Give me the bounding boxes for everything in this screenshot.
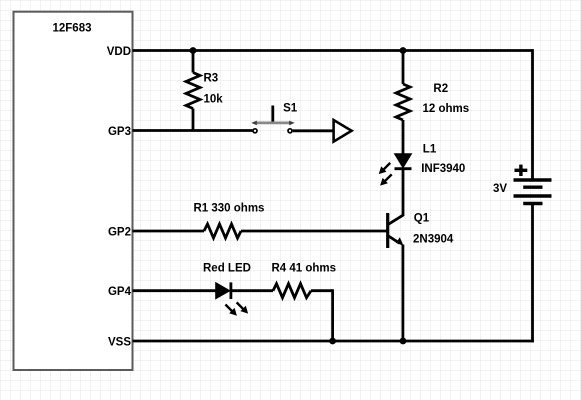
resistor R2 12 ohms: [396, 51, 469, 155]
svg-text:10k: 10k: [204, 94, 224, 106]
wire Red LED to R4: [231, 289, 273, 292]
wire R4 to corner: [311, 289, 333, 292]
resistor R4 41 ohms: [272, 263, 337, 298]
resistor R1 330 ohms: [194, 203, 265, 239]
svg-text:R2: R2: [433, 83, 448, 95]
svg-text:GP4: GP4: [108, 286, 132, 298]
svg-text:3V: 3V: [493, 183, 507, 195]
svg-text:S1: S1: [283, 102, 298, 114]
wire right drop to battery positive: [531, 49, 534, 180]
wire GP2 to R1: [133, 230, 205, 233]
svg-text:L1: L1: [423, 144, 437, 156]
wire GP3 to switch: [133, 129, 253, 132]
wire VSS rail: [133, 340, 534, 343]
pin label VSS: [108, 337, 131, 349]
junction node VDD-R2: [400, 47, 407, 54]
buffer arrow symbol: [334, 120, 352, 142]
wire LED to Q1 collector: [402, 169, 405, 216]
junction node VDD-R3: [190, 47, 197, 54]
resistor R3 10k: [186, 51, 223, 131]
wire battery negative down to VSS corner: [531, 204, 534, 343]
junction node VSS-R4: [329, 338, 336, 345]
svg-text:VDD: VDD: [107, 46, 131, 58]
svg-text:INF3940: INF3940: [421, 163, 465, 175]
wire GP4 to Red LED: [133, 289, 217, 292]
svg-text:VSS: VSS: [108, 337, 131, 349]
LED D1 Red LED: [203, 263, 251, 316]
svg-text:Red LED: Red LED: [203, 263, 251, 275]
svg-text:GP3: GP3: [108, 126, 131, 138]
pin label VDD: [107, 46, 131, 58]
transistor Q1 2N3904: [388, 212, 454, 248]
battery B1 3V: [493, 165, 552, 204]
pin label GP4: [108, 286, 132, 298]
wire corner down to VSS: [331, 289, 334, 341]
wire VDD rail: [133, 49, 533, 52]
svg-text:GP2: GP2: [108, 227, 131, 239]
junction node VSS-Q1 emitter: [400, 338, 407, 345]
pin label GP2: [108, 227, 131, 239]
svg-text:Q1: Q1: [414, 212, 430, 224]
wire switch to arrow: [293, 129, 334, 132]
pin label GP3: [108, 126, 131, 138]
wire Q1 emitter to VSS: [401, 245, 404, 342]
LED L1 INF3940: [379, 144, 466, 186]
svg-text:R3: R3: [204, 73, 219, 85]
IC U1 12F683 body: [14, 12, 133, 370]
svg-text:2N3904: 2N3904: [413, 234, 454, 246]
wire R1 to Q1 base: [241, 230, 388, 233]
svg-text:R1 330 ohms: R1 330 ohms: [194, 203, 265, 215]
svg-text:12F683: 12F683: [52, 23, 91, 35]
svg-text:12 ohms: 12 ohms: [423, 103, 470, 115]
switch S1: [251, 102, 297, 133]
svg-text:R4 41 ohms: R4 41 ohms: [272, 263, 337, 275]
